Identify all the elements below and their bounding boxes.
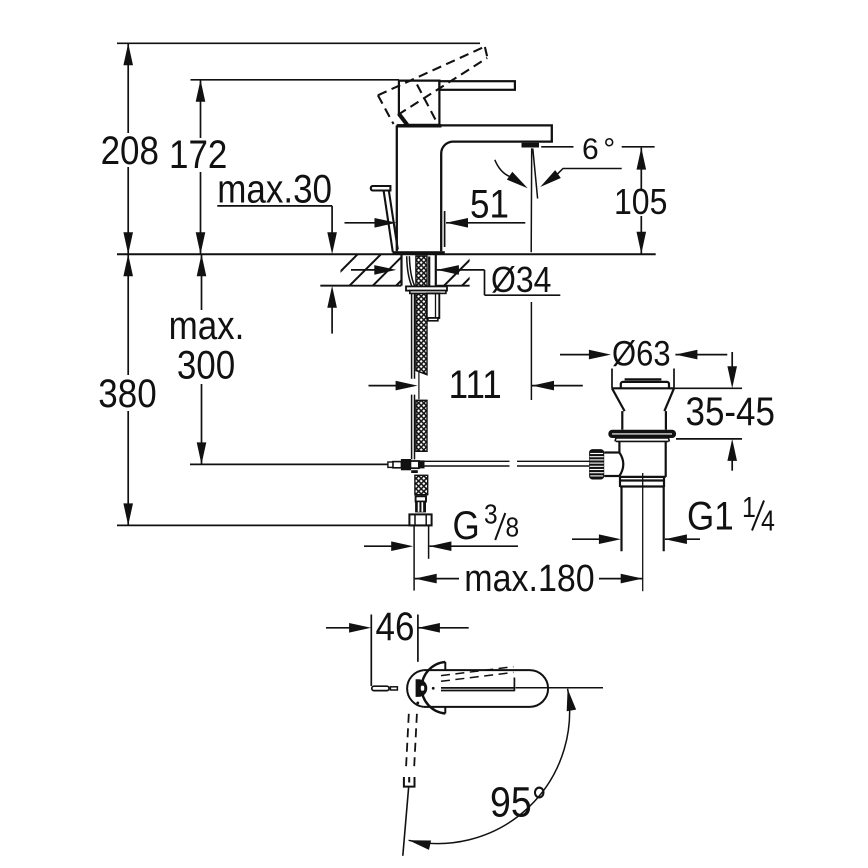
dimension diameter 34 [351, 270, 560, 295]
svg-text:51: 51 [470, 181, 509, 225]
svg-text:95°: 95° [490, 779, 547, 826]
deck hole walls [402, 254, 436, 286]
lever tip foot (95 deg position) [404, 777, 415, 787]
dimension 35-45 [670, 352, 742, 471]
svg-text:3: 3 [484, 498, 498, 530]
supply pipe below nut [413, 525, 415, 590]
wire deck top line [117, 253, 656, 255]
faucet base plate [393, 251, 445, 255]
handle lever raised (dashed phantom) [378, 47, 488, 124]
6 degree pointer arc left [495, 160, 510, 177]
svg-text:max.180: max.180 [464, 556, 594, 599]
lever lines (top view solid) [441, 678, 514, 692]
6 degree pointer leader right [556, 169, 622, 176]
svg-text:max.: max. [169, 303, 245, 347]
svg-text:1: 1 [742, 492, 756, 524]
deck cross-section hatching right [444, 254, 512, 286]
drain cap [621, 379, 669, 388]
rod guide block [427, 293, 440, 318]
mounting washer under deck [406, 286, 447, 290]
deck bottom line [320, 285, 469, 287]
body cap (top view) [422, 662, 446, 714]
dimension G1 1/4 arrows [572, 538, 700, 540]
svg-text:105: 105 [614, 182, 667, 222]
svg-text:4: 4 [761, 505, 775, 537]
svg-text:max.30: max.30 [217, 166, 332, 210]
lever bar pointing left (top view) [372, 686, 389, 690]
svg-text:8: 8 [506, 511, 520, 543]
drain side port [604, 453, 623, 477]
svg-text:G: G [453, 503, 480, 547]
rod coupling at hose [401, 459, 411, 470]
dimension 380 [127, 254, 129, 525]
water stream vertical line [530, 148, 533, 252]
svg-text:Ø34: Ø34 [491, 260, 551, 300]
svg-text:46: 46 [376, 604, 415, 648]
hose braid above G3/8 nut [415, 475, 428, 494]
mounting plate [410, 291, 446, 294]
drain seal ring [608, 430, 676, 438]
dashed lever rotated 95 (bottom view) [406, 714, 417, 771]
faucet body outline [397, 125, 552, 251]
svg-text:6°: 6° [582, 133, 615, 166]
pop-up rod horizontal [425, 461, 591, 466]
dots [432, 687, 435, 690]
svg-text:380: 380 [98, 371, 156, 415]
95 degree position line [403, 787, 409, 856]
drain body [619, 441, 665, 477]
svg-text:G1: G1 [687, 493, 734, 537]
wire bottom reference line 380 [117, 524, 430, 526]
wire reference line 172 [191, 79, 400, 81]
drain flare [612, 388, 674, 429]
drain tailpipe [622, 487, 664, 551]
svg-text:300: 300 [177, 342, 235, 386]
dimension 105 [640, 148, 642, 254]
drain knurled knob [589, 449, 604, 479]
hose lower braid segment [416, 400, 427, 451]
dimension 46 [326, 615, 469, 687]
dimension 208 [127, 43, 129, 254]
dimension 111 [369, 385, 583, 387]
aerator [522, 143, 540, 148]
water stream 6 degree line [533, 149, 538, 199]
stream center extension below deck [530, 302, 532, 400]
spout barrel (top view) [424, 670, 548, 707]
95 degree arc [409, 689, 570, 844]
svg-text:35-45: 35-45 [686, 389, 775, 433]
dimension 51 [345, 211, 526, 247]
wire top reference line 208 [117, 42, 480, 44]
deck cross-section hatching left [326, 254, 427, 286]
cartridge mark [416, 679, 428, 697]
hose center line through gap [418, 372, 420, 400]
drain compression nut [620, 477, 664, 487]
dimension G3/8 arrows [364, 545, 518, 547]
hose left wall lower [412, 395, 415, 460]
svg-text:111: 111 [449, 362, 502, 406]
link piece below coupling [411, 470, 418, 473]
svg-text:208: 208 [101, 128, 159, 172]
lever lines (top view dashed swung) [441, 667, 513, 682]
drain seal seat [615, 438, 669, 441]
wire max300 bottom reference line [190, 463, 391, 465]
threaded shank braid through deck [416, 256, 427, 375]
dimension max.300 [201, 254, 203, 464]
hose end knurled fitting [415, 502, 426, 513]
hose collar [416, 496, 426, 501]
svg-text:Ø63: Ø63 [612, 335, 671, 374]
0 degree reference line [516, 687, 604, 689]
dimension max.180 [415, 578, 643, 580]
flexible hose curve in hole [407, 256, 415, 379]
dimension 172 [200, 80, 202, 254]
drain center line [642, 473, 644, 591]
handle lever (solid) [399, 81, 515, 125]
G3/8 nut [409, 514, 431, 525]
pop-up pull rod knob behind body [371, 186, 398, 252]
